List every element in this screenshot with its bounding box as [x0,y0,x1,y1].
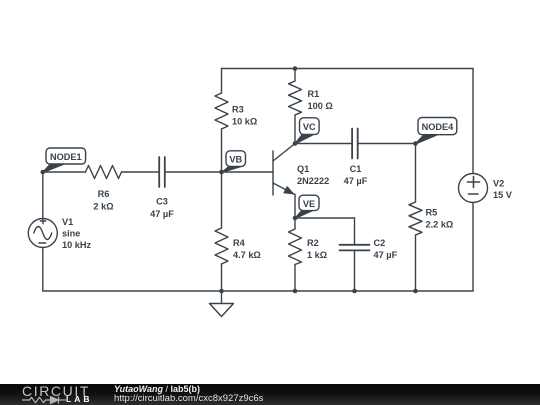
label R6 value [93,202,113,212]
svg-text:VB: VB [229,155,242,165]
svg-text:VE: VE [303,199,315,209]
label C1 [350,164,362,174]
wire top rail [222,68,474,70]
capacitor C3 [159,157,165,187]
label R6 [98,189,110,199]
resistor R1 [289,69,302,144]
svg-text:C2: C2 [374,238,386,248]
label R4 value [233,250,261,260]
junction top of R1 [293,66,298,71]
svg-text:sine: sine [62,229,80,239]
label C3 [156,197,168,207]
svg-text:47 µF: 47 µF [344,176,368,186]
wire top rail to V2 [472,69,474,174]
footer url line [114,394,263,404]
flag NODE4 [416,118,457,144]
wire C1 to NODE4 [359,143,416,145]
label C2 value [374,250,398,260]
svg-text:2N2222: 2N2222 [297,176,329,186]
label V2 value [493,190,513,200]
label C2 [374,238,386,248]
label R4 [233,238,246,248]
svg-text:R1: R1 [308,89,320,99]
junction NODE1 [41,170,46,175]
svg-text:2.2 kΩ: 2.2 kΩ [426,220,454,230]
wire emitter to VE [294,195,296,219]
label R2 [307,238,319,248]
label C1 value [344,176,368,186]
capacitor C2 [340,218,370,291]
wire VE to C2 [295,217,355,219]
svg-text:R3: R3 [232,105,244,115]
svg-text:V1: V1 [62,217,73,227]
label V2 [493,179,504,189]
label R1 value [308,101,333,111]
junction bottom R4 [219,289,224,294]
wire VC to C1 [295,143,351,145]
flag VC [295,118,319,144]
svg-text:10 kΩ: 10 kΩ [232,117,257,127]
svg-text:15 V: 15 V [493,190,513,200]
junction NODE4 [413,141,418,146]
label V1 [62,217,73,227]
source V2 [459,174,488,292]
wire bottom rail [43,290,473,292]
svg-text:4.7 kΩ: 4.7 kΩ [233,250,261,260]
svg-text:2 kΩ: 2 kΩ [93,202,113,212]
logo LAB text [66,395,92,404]
junction bottom R2 [293,289,298,294]
wire NODE1 to R6 [43,171,86,173]
resistor R4 [215,172,228,291]
svg-text:R5: R5 [426,208,438,218]
flag VE [295,195,319,218]
svg-text:R6: R6 [98,189,110,199]
source V1 [28,172,57,291]
resistor R5 [409,144,422,292]
label Q1 part [297,176,329,186]
resistor R3 [215,69,228,173]
svg-text:NODE4: NODE4 [422,122,455,132]
svg-text:VC: VC [303,122,316,132]
junction VC [293,141,298,146]
resistor R2 [289,218,302,291]
svg-text:47 µF: 47 µF [150,209,174,219]
svg-text:NODE1: NODE1 [50,152,82,162]
junction bottom R5 [413,289,418,294]
label Q1 [297,164,309,174]
svg-text:47 µF: 47 µF [374,250,398,260]
junction bottom C2 [352,289,357,294]
label C3 value [150,209,174,219]
logo resistor-diode glyph [20,395,68,405]
svg-text:100 Ω: 100 Ω [308,101,333,111]
junction VE [293,216,298,221]
wire C3 to Q1 base [166,171,273,173]
svg-text:R2: R2 [307,238,319,248]
resistor R6 [86,166,122,179]
flag NODE1 [43,148,86,173]
junction VB [219,170,224,175]
transistor Q1 [273,144,295,196]
label R5 value [426,220,454,230]
label V1 type [62,229,80,239]
ground [210,291,234,317]
label R3 value [232,117,257,127]
svg-text:V2: V2 [493,179,504,189]
svg-text:10 kHz: 10 kHz [62,240,92,250]
label R3 [232,105,244,115]
svg-text:1 kΩ: 1 kΩ [307,250,327,260]
footer bar [0,384,540,405]
label R2 value [307,250,327,260]
label R5 [426,208,438,218]
svg-text:C3: C3 [156,197,168,207]
svg-text:Q1: Q1 [297,164,309,174]
capacitor C1 [352,129,358,159]
svg-text:R4: R4 [233,238,246,248]
wire R6 to C3 [122,171,159,173]
logo CIRCUIT text [22,386,90,397]
footer author line [114,385,200,394]
flag VB [222,151,246,173]
label R1 [308,89,320,99]
svg-text:C1: C1 [350,164,362,174]
label V1 value [62,240,92,250]
